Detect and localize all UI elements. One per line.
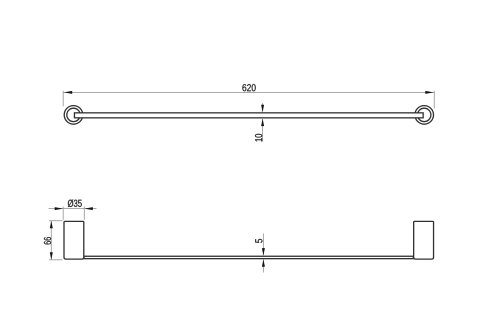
arrow up (10) — [261, 119, 264, 127]
arrow up (5) — [262, 259, 265, 267]
label 620 — [242, 84, 255, 91]
extension line bottom (66) — [49, 259, 63, 261]
label 5 (rotated) — [255, 239, 262, 243]
dimension 5 vertical line lower — [262, 260, 264, 273]
dimension line 620 — [63, 91, 434, 93]
bar (front view) — [84, 256, 413, 258]
dimension line Ø35 — [49, 208, 97, 210]
arrow left-pointing (Ø35 right) — [85, 207, 93, 210]
arrow left (620) — [64, 91, 72, 94]
arrow right-pointing (Ø35 left) — [55, 207, 63, 210]
extension line left (Ø35) — [62, 207, 64, 220]
right bracket — [414, 221, 434, 259]
label Ø35 — [68, 200, 82, 208]
arrow right (620) — [425, 91, 433, 94]
extension line top (66) — [49, 220, 63, 222]
label 10 (rotated) — [255, 134, 262, 142]
dimension line 66 — [50, 221, 52, 260]
dimension 10 vertical line lower — [262, 119, 264, 141]
bar (top view) — [74, 113, 423, 118]
dimension 5 vertical line upper — [262, 234, 264, 256]
right rosette outer circle — [415, 106, 434, 125]
dimension 10 vertical line upper — [262, 103, 264, 112]
left rosette inner circle — [67, 108, 80, 121]
arrow down (10) — [261, 105, 264, 113]
right rosette inner circle — [418, 108, 431, 121]
arrow down (66) — [50, 252, 53, 259]
extension line right (Ø35) — [83, 207, 85, 220]
extension line right (620) — [433, 91, 435, 109]
arrow down (5) — [262, 248, 265, 256]
left rosette outer circle — [64, 106, 83, 125]
extension line left (620) — [62, 91, 64, 107]
left bracket — [64, 221, 84, 259]
arrow up (66) — [50, 221, 53, 229]
label 66 (rotated) — [44, 237, 51, 244]
